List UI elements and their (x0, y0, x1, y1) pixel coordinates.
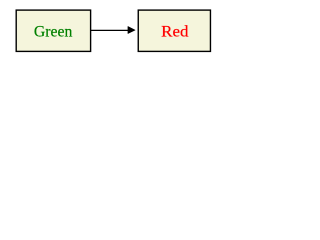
wire (91, 29, 130, 31)
node Green (16, 10, 90, 51)
svg-text:Red: Red (161, 23, 188, 40)
svg-text:Green: Green (34, 23, 73, 40)
node Red (138, 10, 210, 51)
arrowhead (128, 26, 135, 33)
